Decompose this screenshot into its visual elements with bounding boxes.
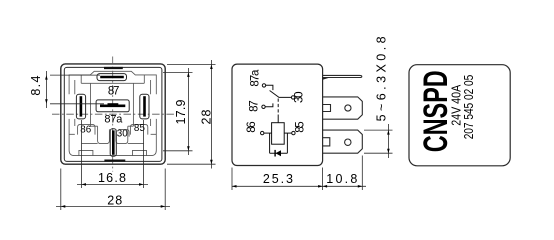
moulding contour: pad around 30	[119, 130, 130, 137]
moulding contour: plateau bottom edge	[81, 82, 144, 84]
svg-text:16.8: 16.8	[98, 171, 126, 185]
terminal 85 slot plate	[140, 94, 149, 119]
pin 3 wide blade	[323, 130, 363, 153]
relay bottom view: inner housing edge	[64, 67, 162, 161]
svg-text:86: 86	[246, 121, 258, 133]
wire diode branch left	[269, 133, 271, 153]
pin 2 wide blade	[323, 97, 363, 119]
relay label outline	[409, 65, 510, 166]
pin 1 thin blade (edge view)	[323, 75, 362, 77]
contact 87a fixed contact lead	[266, 85, 273, 90]
svg-text:87a: 87a	[250, 69, 262, 87]
contact 87 fixed contact lead	[265, 103, 273, 106]
dim 16.8 extension lines	[82, 120, 144, 188]
svg-text:28: 28	[107, 194, 122, 208]
diode D1 (suppression diode)	[275, 150, 281, 157]
svg-text:87: 87	[108, 86, 120, 98]
moulding contour: bottom shelf right	[128, 143, 144, 145]
actuator link (dashed)	[277, 99, 279, 115]
dim 16.8 dimension line	[77, 183, 148, 185]
svg-text:87a: 87a	[104, 114, 123, 126]
center line horizontal (bottom view)	[52, 113, 174, 115]
pin 2 crimp notch	[323, 105, 331, 112]
svg-text:10.8: 10.8	[326, 172, 357, 186]
coil terminal 85 circle	[292, 131, 295, 134]
moulding contour: left shoulder	[69, 75, 81, 134]
moulding contour: finger cutout left of 30 slot	[98, 126, 110, 143]
coil terminal 86 circle	[261, 131, 264, 134]
pin 3 crimp notch	[323, 138, 330, 146]
terminal 86 slot plate	[76, 94, 85, 119]
moulding contour: bottom raised tab left	[79, 150, 93, 155]
dim 28 bottom arrows	[61, 205, 165, 208]
moulding contour: pad around 86	[78, 125, 95, 135]
wire diode branch bottom	[270, 152, 288, 154]
housing top mounting tab	[104, 67, 123, 69]
relay bottom view: outer housing outline	[61, 64, 165, 164]
dim 28 bottom extension lines	[61, 169, 165, 211]
wire coil to 85	[284, 132, 292, 134]
pin 1 root fillet	[323, 78, 330, 80]
contact 87a terminal circle	[262, 84, 265, 87]
terminal 85 slot blade	[143, 96, 146, 116]
moulding contour: central channel right wall	[132, 83, 134, 126]
dim 5-6.3x0.8 arrows	[387, 130, 390, 153]
dim 5-6.3x0.8 extension lines	[364, 130, 393, 153]
moulding contour: top plateau	[81, 71, 144, 83]
relay side view body	[232, 64, 323, 165]
dim 8.4 dimension line	[45, 71, 47, 108]
dim 28 right arrows	[210, 65, 213, 165]
dim 25.3 dimension line	[232, 185, 323, 187]
dim 28 bottom dimension line	[56, 205, 170, 207]
svg-text:30: 30	[294, 92, 306, 104]
dim 10.8 dimension line	[323, 185, 366, 187]
moulding contour: bottom shelf left	[82, 143, 98, 145]
housing bottom mounting tab	[104, 160, 125, 162]
svg-text:17.9: 17.9	[174, 99, 188, 124]
svg-text:25.3: 25.3	[263, 172, 293, 186]
dim 17.9 extension lines	[163, 72, 193, 150]
dim 17.9 arrows	[187, 72, 190, 150]
dim 10.8 extension line at pin tip	[361, 156, 363, 191]
svg-text:85: 85	[294, 121, 306, 133]
pin 3 hole	[345, 139, 351, 145]
svg-text:87: 87	[248, 100, 260, 112]
terminal 87a slot plate	[96, 100, 129, 112]
moulding contour: pad around 85	[130, 125, 147, 135]
center line vertical (bottom view)	[112, 57, 114, 172]
terminal 87 slot plate	[97, 74, 127, 81]
dim 8.4 extension lines	[50, 75, 104, 104]
svg-text:86: 86	[80, 124, 92, 135]
moulding contour: bottom recess outer U	[69, 126, 156, 156]
wire diode branch right	[286, 133, 288, 153]
moulding contour: right shoulder	[144, 75, 156, 134]
terminal 30 slot blade	[112, 130, 115, 154]
terminal 87 slot blade	[100, 76, 124, 79]
dim 17.9 dimension line	[187, 68, 189, 155]
moulding contour: channel-to-finger ledges	[91, 125, 134, 127]
dim 16.8 arrows	[82, 183, 144, 186]
dim 25.3 arrows	[232, 185, 323, 188]
terminal 86 slot blade	[80, 96, 83, 116]
wire 86 to coil	[264, 132, 272, 134]
moulding contour: finger cutout right of 30 slot	[116, 126, 128, 143]
svg-text:207 545 02 05: 207 545 02 05	[461, 75, 476, 140]
terminal 87a blade key step	[108, 103, 119, 105]
svg-text:5~6.3X0.8: 5~6.3X0.8	[374, 36, 388, 121]
contact 30 terminal circle	[291, 96, 294, 99]
svg-text:28: 28	[199, 109, 213, 124]
coil K1 winding box	[272, 123, 285, 145]
pin 2 hole	[345, 105, 351, 111]
moulding contour: central channel left wall	[90, 83, 92, 126]
svg-text:30: 30	[117, 128, 129, 139]
dim 25.3 extension lines	[232, 168, 323, 191]
switch arm (30 to 87a)	[270, 91, 292, 98]
svg-text:8.4: 8.4	[29, 76, 43, 96]
contact 87 terminal circle	[262, 105, 265, 108]
dim 10.8 arrows	[323, 185, 363, 188]
terminal 87a slot blade	[100, 105, 125, 108]
dim 28 right dimension line	[210, 60, 212, 169]
dim 28 right extension lines	[167, 65, 216, 165]
dim 8.4 arrows	[45, 75, 48, 104]
moulding contour: bottom raised tab right	[133, 150, 147, 155]
dim 5-6.3x0.8 dimension line	[387, 124, 389, 158]
terminal 30 slot plate	[110, 129, 116, 156]
